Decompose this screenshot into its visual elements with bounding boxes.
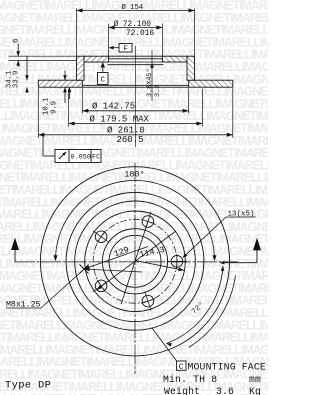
svg-text:180°: 180° [124, 169, 144, 179]
section centerline [135, 46, 137, 147]
svg-text:F: F [123, 46, 128, 54]
svg-text:Ø 142.75: Ø 142.75 [92, 102, 135, 112]
right rotation indicator arrow [256, 249, 258, 263]
svg-text:Kg: Kg [249, 386, 261, 395]
dim d72.100/72.016 [109, 27, 163, 29]
svg-text:9.9: 9.9 [51, 101, 59, 114]
svg-text:Min. TH 8: Min. TH 8 [163, 374, 217, 385]
dim d154 [77, 10, 195, 12]
svg-text:C: C [179, 363, 184, 372]
svg-text:Ø 154: Ø 154 [122, 3, 144, 12]
hat flange right [162, 56, 187, 62]
left ext pair for 6 dim [9, 55, 77, 57]
datum F frame [119, 44, 132, 53]
left rotation indicator arrow [14, 249, 16, 262]
svg-text:MOUNTING FACE: MOUNTING FACE [188, 361, 266, 372]
dim d179.5 MAX [69, 123, 203, 125]
braking band right [189, 80, 233, 87]
short leader from M8 point [84, 269, 142, 272]
dim 34.1/33.9 [26, 56, 28, 80]
circle d190 [66, 192, 204, 330]
outer circle d261 [40, 167, 229, 356]
circle d167 [75, 201, 196, 322]
radial line through upper-right hole [121, 219, 149, 305]
interior bottom double line [82, 84, 188, 86]
dim line 114.3 [135, 261, 184, 271]
hat flange left [84, 56, 109, 62]
svg-text:10.1: 10.1 [43, 98, 51, 115]
extension lines bottom dims [81, 88, 83, 113]
datum C frame [102, 64, 104, 73]
svg-text:3.2: 3.2 [154, 85, 162, 97]
dim d261.0/260.5 [38, 134, 233, 136]
svg-text:Ø 179.5 MAX: Ø 179.5 MAX [90, 114, 150, 124]
svg-text:33.9: 33.9 [13, 71, 21, 88]
svg-text:Type DP: Type DP [5, 380, 51, 392]
dim d142.75 [82, 110, 188, 112]
hat wall right [187, 56, 195, 80]
72 deg dimension arcs [167, 266, 223, 344]
mounting face table [177, 361, 187, 370]
front view centerlines [134, 163, 136, 375]
chamfer labels 3.8x45 / 3.2 [151, 50, 153, 101]
svg-text:72.016: 72.016 [126, 30, 154, 38]
hole interior lines [109, 55, 163, 57]
svg-text:260.5: 260.5 [117, 135, 144, 145]
dim 6 [17, 44, 19, 57]
svg-text:3.8X45°: 3.8X45° [145, 68, 154, 97]
180 deg dimension arc [56, 180, 215, 260]
svg-text:C: C [101, 77, 106, 85]
mounting face leader [152, 328, 177, 362]
center bore d72 [109, 235, 161, 287]
runout tolerance frame [42, 136, 44, 156]
dim 10.1/9.9 [64, 71, 66, 81]
radial line to lower-left hole [96, 231, 176, 290]
svg-text:Ø 72.100: Ø 72.100 [114, 20, 152, 29]
svg-text:6: 6 [13, 38, 21, 43]
M8 hole mark [80, 265, 89, 274]
svg-text:Weight: Weight [164, 386, 200, 395]
svg-text:FC: FC [92, 154, 100, 162]
bolt holes [171, 255, 183, 267]
hub ring circle [102, 229, 167, 294]
hat wall left [77, 56, 85, 80]
svg-text:mm: mm [249, 374, 261, 385]
extension lines top dims [76, 9, 78, 57]
braking band left [38, 80, 82, 87]
svg-text:3.6: 3.6 [216, 386, 234, 395]
dim line 129 [84, 247, 148, 270]
circle d142.75 front [85, 211, 186, 312]
bolt circle d114.3 dash-dot [93, 219, 177, 303]
svg-text:0.050: 0.050 [71, 154, 91, 162]
